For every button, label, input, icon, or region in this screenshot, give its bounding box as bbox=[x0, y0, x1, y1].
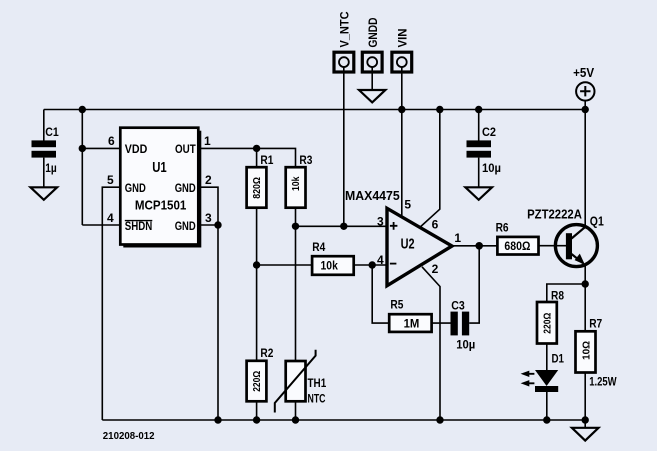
junction pin 6 wire at rail bbox=[436, 106, 443, 113]
wire C2 bottom lead bbox=[478, 158, 480, 188]
svg-text:GND: GND bbox=[175, 181, 196, 195]
wire TH1 bottom lead bbox=[295, 401, 297, 420]
wire GNDD to ground bbox=[371, 67, 373, 90]
svg-text:GNDD: GNDD bbox=[366, 17, 380, 47]
wire R1 bottom lead to node A bbox=[256, 208, 258, 265]
svg-text:R5: R5 bbox=[390, 297, 403, 311]
junction emitter node bbox=[582, 280, 589, 287]
svg-text:VIN: VIN bbox=[396, 29, 410, 48]
ground under C1 bbox=[31, 187, 58, 200]
svg-text:C1: C1 bbox=[45, 125, 59, 139]
wire top +5V rail bbox=[44, 109, 585, 111]
junction output node bbox=[475, 242, 483, 250]
junction R3-TH1 at + line bbox=[292, 223, 299, 230]
junction pins 2-3 bbox=[214, 221, 221, 228]
svg-text:10µ: 10µ bbox=[456, 338, 475, 352]
wire R6 to Q1 base bbox=[539, 245, 567, 247]
wire R5 to C3 bbox=[432, 322, 451, 324]
svg-text:1: 1 bbox=[204, 134, 211, 148]
junction pin 2 at bottom rail bbox=[436, 416, 443, 423]
wire op-amp pin 6 bbox=[420, 110, 440, 228]
wire GND pin 5 to bottom rail bbox=[102, 187, 120, 420]
pin number 5 op-amp bbox=[404, 198, 411, 212]
resistor R4 bbox=[312, 240, 354, 275]
junction TH1 at bottom rail bbox=[292, 416, 299, 423]
capacitor C2 bbox=[467, 125, 502, 175]
svg-text:220Ω: 220Ω bbox=[542, 313, 554, 334]
svg-text:GND: GND bbox=[175, 219, 196, 233]
wire VDD pin 6 bbox=[82, 147, 120, 149]
svg-text:6: 6 bbox=[108, 134, 115, 148]
resistor R6 bbox=[496, 221, 539, 255]
svg-text:2: 2 bbox=[432, 262, 439, 276]
wire VIN to rail bbox=[401, 67, 403, 110]
junction pin 3 at bottom rail bbox=[214, 416, 221, 423]
wire GND pin 2 bbox=[198, 187, 218, 225]
junction R2 at bottom rail bbox=[253, 416, 260, 423]
wire R1-R2 link bbox=[256, 265, 258, 361]
pin number 6 op-amp bbox=[432, 218, 439, 232]
junction R7 at bottom rail bbox=[582, 416, 589, 423]
svg-text:5: 5 bbox=[404, 198, 411, 212]
resistor R7 bbox=[576, 317, 618, 389]
svg-text:R2: R2 bbox=[260, 346, 273, 360]
wire R4 to inverting input bbox=[353, 264, 387, 266]
wire SHDN pin 4 bbox=[82, 224, 120, 226]
pin number 1 bbox=[454, 231, 461, 245]
svg-text:10k: 10k bbox=[290, 176, 302, 191]
wire C3 up to output node bbox=[469, 246, 479, 323]
wire R2 bottom lead bbox=[256, 401, 258, 420]
svg-text:1.25W: 1.25W bbox=[589, 375, 617, 389]
svg-text:680Ω: 680Ω bbox=[504, 239, 530, 253]
svg-text:220Ω: 220Ω bbox=[251, 371, 263, 392]
junction +5V rail corner bbox=[582, 106, 589, 113]
svg-text:C2: C2 bbox=[482, 125, 496, 139]
wire op-amp pin 2 to ground rail bbox=[422, 267, 440, 420]
junction node A R1-R4-R2 bbox=[253, 261, 260, 268]
wire R3 bottom lead bbox=[295, 208, 297, 227]
svg-text:820Ω: 820Ω bbox=[251, 177, 263, 199]
junction C2 at rail bbox=[475, 106, 482, 113]
svg-text:R8: R8 bbox=[551, 289, 564, 303]
svg-text:10µ: 10µ bbox=[482, 161, 501, 175]
wire C1 top lead bbox=[43, 110, 45, 142]
wire emitter node to R7 bbox=[584, 284, 586, 331]
pin number 6 bbox=[108, 134, 115, 148]
resistor R5 bbox=[389, 297, 431, 332]
wire R7 to bottom rail bbox=[584, 373, 586, 421]
pin number 5 bbox=[107, 173, 114, 187]
svg-text:OUT: OUT bbox=[175, 142, 196, 156]
connector V_NTC bbox=[334, 11, 354, 72]
wire C2 top lead bbox=[478, 110, 480, 142]
thermistor TH1 NTC bbox=[275, 350, 327, 413]
junction VDD tap bbox=[79, 145, 86, 152]
ground bottom right bbox=[572, 420, 599, 441]
wire R8 to D1 bbox=[546, 344, 548, 371]
IC U1 MCP1501 bbox=[120, 128, 201, 248]
connector GNDD bbox=[362, 17, 382, 72]
svg-text:R3: R3 bbox=[299, 153, 312, 167]
ground under C2 bbox=[465, 187, 492, 200]
svg-text:MAX4475: MAX4475 bbox=[345, 189, 400, 203]
wire non-inverting input line bbox=[296, 225, 388, 227]
svg-text:6: 6 bbox=[432, 218, 439, 232]
wire op-amp output to R6 bbox=[452, 245, 497, 247]
svg-text:210208-012: 210208-012 bbox=[103, 430, 155, 442]
pin number 3 bbox=[377, 215, 384, 229]
pin number 4 bbox=[107, 211, 114, 225]
wire C1 bottom lead bbox=[43, 158, 45, 188]
svg-text:R6: R6 bbox=[496, 221, 509, 235]
junction rail to U1 feed bbox=[79, 106, 86, 113]
svg-text:2: 2 bbox=[205, 173, 212, 187]
wire U1 feed vertical bbox=[81, 110, 83, 226]
junction V_NTC at + line bbox=[340, 223, 347, 230]
wire +5V to rail bbox=[584, 101, 586, 110]
svg-text:Q1: Q1 bbox=[590, 215, 604, 229]
junction D1 at bottom rail bbox=[543, 416, 550, 423]
resistor R2 bbox=[247, 346, 274, 402]
resistor R1 bbox=[247, 153, 274, 208]
label 210208-012 bbox=[103, 430, 155, 442]
svg-text:GND: GND bbox=[125, 181, 146, 195]
junction VIN at rail bbox=[398, 106, 405, 113]
wire node A to R4 bbox=[257, 264, 313, 266]
connector VIN bbox=[392, 29, 412, 73]
svg-text:1: 1 bbox=[454, 231, 461, 245]
svg-text:TH1: TH1 bbox=[308, 376, 327, 390]
wire emitter down bbox=[584, 264, 586, 284]
svg-text:C3: C3 bbox=[451, 299, 465, 313]
svg-text:4: 4 bbox=[107, 211, 114, 225]
svg-text:10k: 10k bbox=[321, 258, 339, 272]
wire TH1 top lead bbox=[295, 226, 297, 361]
svg-text:NTC: NTC bbox=[308, 391, 326, 405]
svg-text:U2: U2 bbox=[401, 236, 415, 253]
pin number 1 bbox=[204, 134, 211, 148]
svg-text:3: 3 bbox=[205, 211, 212, 225]
svg-text:1M: 1M bbox=[404, 317, 420, 331]
svg-text:1µ: 1µ bbox=[45, 161, 57, 175]
wire R1 top lead bbox=[256, 148, 258, 167]
resistor R3 bbox=[286, 153, 313, 208]
svg-text:PZT2222A: PZT2222A bbox=[527, 208, 582, 222]
pin number 2 op-amp bbox=[432, 262, 439, 276]
junction OUT to R1 bbox=[253, 145, 260, 152]
wire OUT pin 1 to R3 bbox=[198, 148, 295, 167]
svg-text:4: 4 bbox=[377, 253, 384, 267]
ground under GNDD bbox=[359, 90, 385, 102]
power +5V bbox=[573, 66, 595, 101]
wire emitter node to R8 bbox=[547, 284, 585, 302]
wire V_NTC down to + line bbox=[343, 67, 345, 226]
resistor R8 bbox=[537, 289, 564, 344]
pin number 2 bbox=[205, 173, 212, 187]
LED D1 bbox=[521, 352, 565, 392]
svg-text:R4: R4 bbox=[312, 240, 325, 254]
svg-text:VDD: VDD bbox=[125, 142, 148, 156]
svg-text:D1: D1 bbox=[552, 352, 565, 366]
svg-text:MCP1501: MCP1501 bbox=[135, 199, 187, 213]
svg-text:10Ω: 10Ω bbox=[580, 341, 592, 360]
svg-text:3: 3 bbox=[377, 215, 384, 229]
junction inverting input node bbox=[369, 261, 376, 268]
svg-text:R7: R7 bbox=[589, 317, 602, 331]
pin number 3 bbox=[205, 211, 212, 225]
capacitor C1 bbox=[32, 125, 59, 175]
transistor Q1 PZT2222A bbox=[527, 208, 604, 267]
capacitor C3 bbox=[451, 299, 476, 352]
wire D1 to bottom rail bbox=[546, 392, 548, 420]
svg-text:5: 5 bbox=[107, 173, 114, 187]
wire bottom ground rail bbox=[102, 419, 585, 421]
svg-text:U1: U1 bbox=[152, 159, 167, 176]
pin number 4 bbox=[377, 253, 384, 267]
wire +5V to collector bbox=[584, 110, 586, 229]
wire op-amp pin 5 supply bbox=[401, 110, 403, 218]
op-amp U2 MAX4475 bbox=[345, 189, 452, 286]
svg-text:V_NTC: V_NTC bbox=[338, 11, 352, 47]
wire GND pin 3 to bottom rail bbox=[198, 225, 218, 420]
svg-text:R1: R1 bbox=[260, 153, 273, 167]
wire feedback down to R5 bbox=[372, 265, 389, 323]
svg-text:+5V: +5V bbox=[573, 66, 595, 80]
